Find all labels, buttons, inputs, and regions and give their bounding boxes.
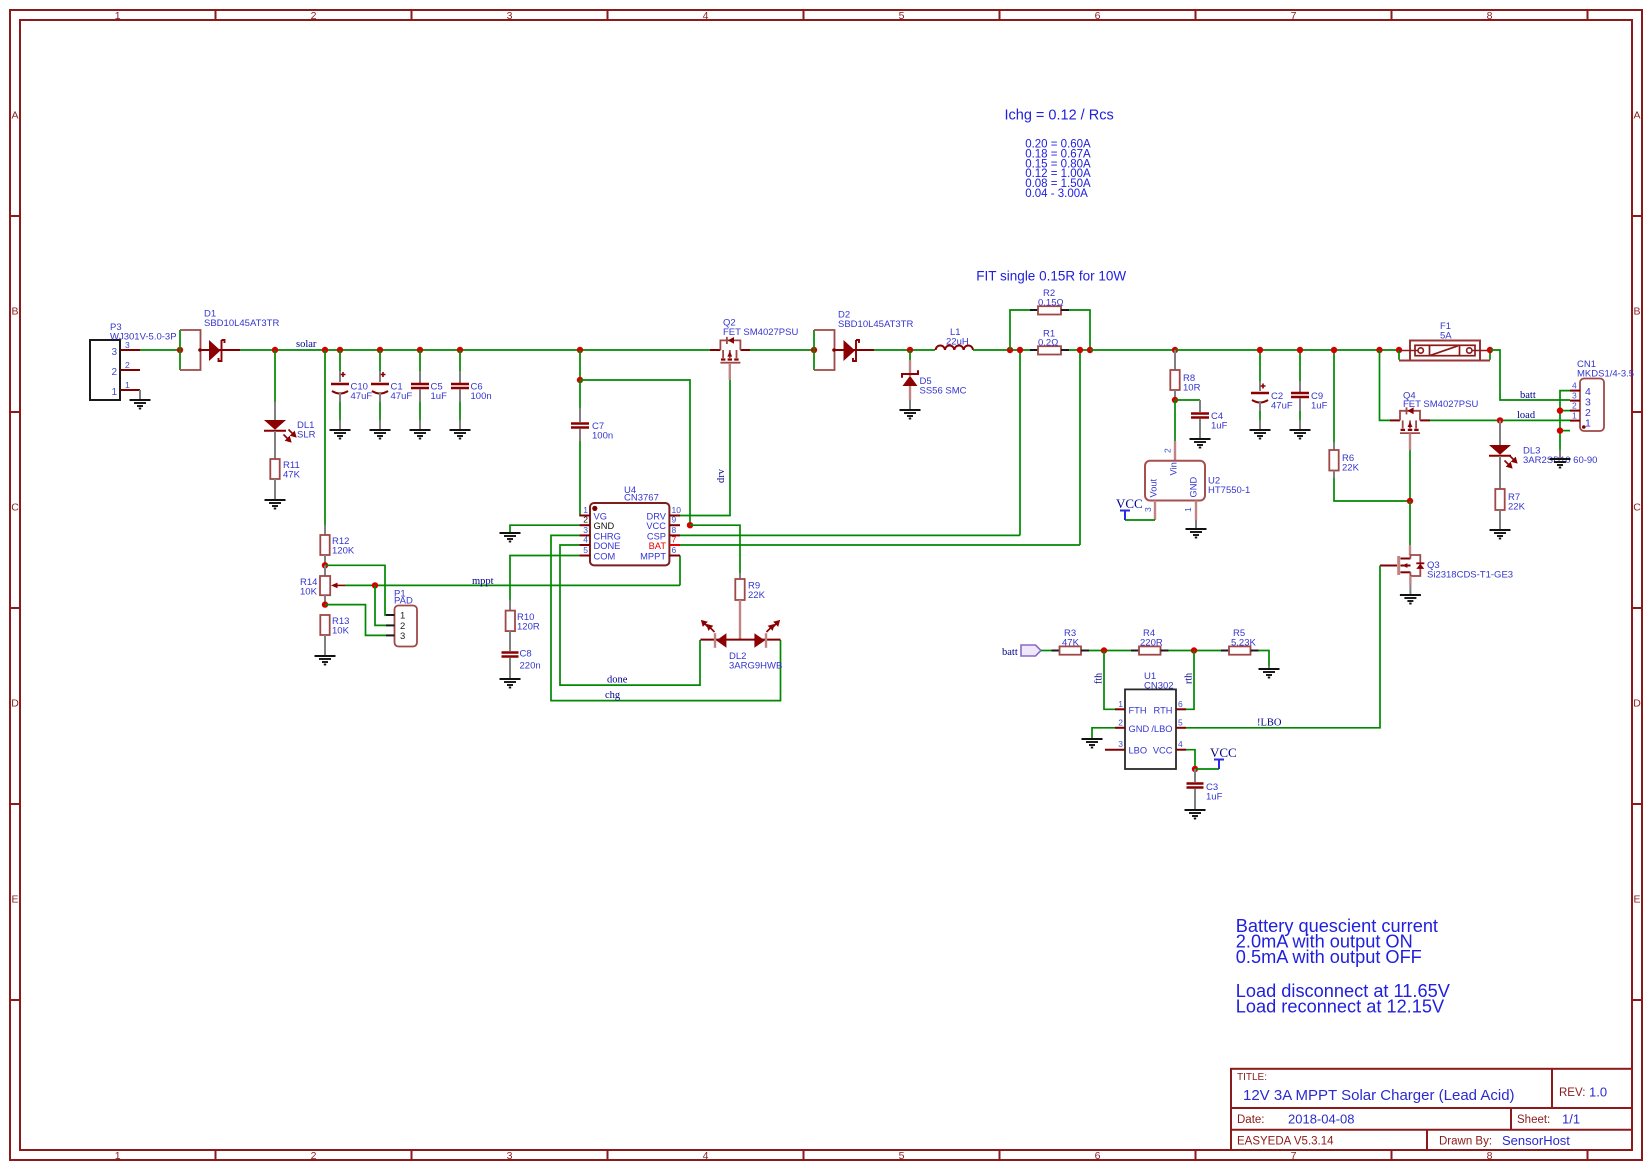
svg-text:load: load (1517, 410, 1536, 421)
wire COM to R10 (510, 556, 579, 611)
U1 pin 3 LBO (1105, 739, 1147, 756)
capacitor C4 1uF (1191, 400, 1228, 438)
svg-text:47K: 47K (1062, 638, 1080, 649)
junction solar DL1 (272, 347, 278, 353)
junction R6 (1331, 347, 1337, 353)
svg-text:1: 1 (115, 10, 121, 22)
svg-text:REV:: REV: (1559, 1087, 1585, 1099)
svg-text:TITLE:: TITLE: (1237, 1072, 1267, 1083)
ground C4 (1190, 439, 1211, 448)
junction VCC pin9 (687, 522, 693, 528)
svg-text:100n: 100n (471, 391, 492, 402)
svg-text:FET SM4027PSU: FET SM4027PSU (723, 327, 798, 338)
U4 pin 8 CSP (647, 525, 680, 542)
svg-text:4: 4 (1178, 739, 1183, 749)
wire R5 to ground (1259, 651, 1270, 669)
wire mppt to P1 pin2 (375, 585, 386, 625)
junction Q3 gate node (1407, 498, 1413, 504)
svg-text:4: 4 (583, 535, 588, 545)
svg-text:SS56 SMC: SS56 SMC (920, 386, 967, 397)
power flag VCC (U2) (1116, 496, 1143, 520)
wire Q4 source branch (1380, 350, 1391, 420)
svg-text:VCC: VCC (646, 521, 666, 531)
junction F1 left (1396, 347, 1402, 353)
svg-text:120R: 120R (517, 622, 540, 633)
svg-text:Vin: Vin (1169, 462, 1179, 475)
fuse F1 5A (1399, 321, 1490, 361)
svg-text:0.15Ω: 0.15Ω (1038, 298, 1064, 309)
svg-text:3: 3 (507, 10, 513, 22)
junction R12-R14 node (322, 562, 328, 568)
svg-text:RTH: RTH (1154, 705, 1173, 715)
svg-text:BAT: BAT (649, 541, 667, 551)
svg-text:C: C (1633, 502, 1641, 514)
svg-text:E: E (11, 894, 18, 906)
wire VCC net top (580, 380, 690, 525)
resistor R5 5.23K (1221, 628, 1259, 655)
svg-text:Sheet:: Sheet: (1517, 1114, 1550, 1126)
U1 pin 1 FTH (1115, 699, 1147, 716)
U4 pin 3 CHRG (579, 525, 620, 542)
svg-text:Vout: Vout (1149, 478, 1159, 497)
wire node to C4 (1175, 399, 1200, 401)
svg-text:2: 2 (1163, 448, 1173, 453)
svg-text:1: 1 (583, 505, 588, 515)
svg-text:Load reconnect at 12.15V: Load reconnect at 12.15V (1236, 997, 1445, 1017)
annotation battery current (1236, 916, 1451, 1017)
junction DL3 (1497, 417, 1503, 423)
svg-text:3: 3 (583, 525, 588, 535)
U1 pin 2 GND (1115, 717, 1149, 734)
svg-text:22K: 22K (1508, 502, 1526, 513)
potentiometer R14 10K (300, 565, 345, 597)
svg-text:220R: 220R (1140, 638, 1163, 649)
U2 pin 3 Vout wire to VCC flag (1125, 501, 1155, 521)
svg-text:MPPT: MPPT (640, 552, 666, 562)
wire DL1 branch (274, 350, 276, 420)
wire chg net (551, 535, 781, 700)
svg-text:VG: VG (594, 512, 607, 522)
wire R12 branch (324, 350, 326, 535)
svg-text:D: D (11, 698, 19, 710)
svg-text:E: E (1633, 894, 1640, 906)
wire drv net (680, 380, 730, 516)
junction D2 anode (811, 347, 817, 353)
junction BAT tap (1077, 347, 1083, 353)
resistor R1 0.2 ohm (1030, 329, 1090, 355)
wire load net (1430, 419, 1570, 421)
annotation Ichg table (1025, 139, 1091, 201)
svg-text:2: 2 (1118, 717, 1123, 727)
svg-text:0.2Ω: 0.2Ω (1038, 338, 1058, 349)
wire batt net to CN1 (1490, 350, 1570, 400)
svg-text:0.5mA with output OFF: 0.5mA with output OFF (1236, 947, 1422, 967)
wire R6 to gate node (1334, 478, 1410, 501)
svg-text:solar: solar (296, 339, 317, 350)
svg-text:Date:: Date: (1237, 1114, 1265, 1126)
svg-text:5: 5 (583, 545, 588, 555)
transistor Q2 FET SM4027PSU (710, 318, 798, 381)
ground C9 (1290, 430, 1311, 439)
svg-text:CSP: CSP (647, 531, 666, 541)
svg-text:3: 3 (1572, 391, 1577, 401)
junction C9 (1297, 347, 1303, 353)
svg-text:47K: 47K (283, 470, 301, 481)
wire CN1 pin4/pin2 to ground (1560, 391, 1570, 450)
wire node to P1 pin3 (325, 605, 386, 636)
svg-text:batt: batt (1002, 647, 1018, 658)
wire node to P1 pin1 (325, 565, 386, 615)
wire to ground CN1 (1559, 450, 1561, 458)
svg-text:6: 6 (672, 545, 677, 555)
svg-text:8: 8 (672, 525, 677, 535)
wire U4 GND pin2 (510, 525, 579, 532)
svg-text:GND: GND (594, 521, 615, 531)
svg-text:1: 1 (111, 387, 117, 398)
svg-text:6: 6 (1095, 1150, 1101, 1162)
resistor R7 22K (1495, 489, 1525, 513)
wire VCC to R9 (690, 525, 740, 573)
junction CSP tap (1017, 347, 1023, 353)
junction R14-R13 node (322, 601, 328, 607)
ground Q3 (1400, 595, 1421, 604)
svg-text:1uF: 1uF (431, 391, 448, 402)
wire R4 to R5 (1169, 650, 1222, 652)
wire CSP net (680, 350, 1020, 535)
ground U1 (1082, 739, 1103, 748)
CN1 pin 1 (1570, 411, 1591, 430)
svg-text:HT7550-1: HT7550-1 (1208, 485, 1250, 496)
wire R14 to R13 (324, 595, 326, 605)
U4 pin 7 BAT (649, 535, 680, 552)
svg-text:GND: GND (1189, 477, 1199, 498)
junction VCC-C7 (577, 377, 583, 383)
svg-text:8: 8 (1487, 10, 1493, 22)
svg-text:1.0: 1.0 (1589, 1085, 1607, 1100)
svg-text:CHRG: CHRG (594, 531, 621, 541)
svg-text:4: 4 (703, 10, 709, 22)
connector P3 WJ301V-5.0-3P (90, 322, 177, 400)
svg-text:5: 5 (899, 1150, 905, 1162)
LED DL2 3ARG9HWB (700, 621, 782, 672)
svg-text:1: 1 (115, 1150, 121, 1162)
junction solar C5 (417, 347, 423, 353)
wire main bus right (1175, 349, 1399, 351)
connector CN1 MKDS1/4-3.5 (1577, 359, 1634, 431)
junction solar C1 (377, 347, 383, 353)
wire DL3 to R7 (1499, 456, 1501, 489)
ground P3 (130, 400, 151, 409)
junction solar C6 (457, 347, 463, 353)
svg-text:120K: 120K (332, 546, 355, 557)
wire R11 to ground (274, 479, 276, 499)
junction D1 anode (177, 347, 183, 353)
wire solar net (240, 349, 710, 351)
svg-text:B: B (11, 306, 18, 318)
net flag batt (1002, 645, 1041, 658)
svg-text:SBD10L45AT3TR: SBD10L45AT3TR (838, 319, 913, 330)
ground C6 (450, 430, 471, 439)
resistor R11 47K (270, 459, 300, 481)
U4 pin 4 DONE (579, 535, 620, 552)
wire mppt net (345, 556, 680, 586)
svg-text:SLR: SLR (297, 430, 316, 441)
capacitor C8 220n (502, 649, 541, 679)
svg-text:1uF: 1uF (1311, 401, 1328, 412)
svg-text:drv: drv (716, 468, 727, 483)
svg-text:0.04 - 3.00A: 0.04 - 3.00A (1025, 188, 1088, 200)
junction R2 right (1087, 347, 1093, 353)
svg-text:100n: 100n (592, 431, 613, 442)
U4 pin 10 DRV (647, 505, 682, 522)
IC U2 HT7550-1 (1143, 448, 1250, 512)
svg-text:FIT single 0.15R for 10W: FIT single 0.15R for 10W (976, 268, 1126, 283)
svg-text:2: 2 (111, 367, 117, 378)
svg-text:Drawn By:: Drawn By: (1439, 1136, 1492, 1148)
svg-text:1: 1 (125, 380, 130, 390)
junction solar R12 (322, 347, 328, 353)
ground CN1 (1550, 459, 1571, 468)
svg-text:47uF: 47uF (1271, 401, 1293, 412)
ground C2 (1250, 430, 1271, 439)
wire DL1 to R11 (274, 431, 276, 459)
ground R7 (1490, 530, 1511, 539)
wire R13 to ground (324, 635, 326, 655)
junction solar C7 (577, 347, 583, 353)
svg-text:VCC: VCC (1210, 745, 1237, 760)
svg-text:1/1: 1/1 (1562, 1112, 1580, 1127)
svg-text:WJ301V-5.0-3P: WJ301V-5.0-3P (110, 332, 177, 343)
svg-text:DRV: DRV (647, 512, 667, 522)
svg-text:B: B (1633, 306, 1640, 318)
svg-text:2: 2 (125, 360, 130, 370)
svg-text:/LBO: /LBO (1151, 724, 1172, 734)
svg-text:7: 7 (1291, 10, 1297, 22)
U4 pin 1 VG (579, 505, 607, 522)
svg-text:GND: GND (1129, 724, 1150, 734)
junction F1 right (1487, 347, 1493, 353)
svg-text:47uF: 47uF (391, 391, 413, 402)
svg-text:A: A (11, 110, 18, 122)
junction C2 (1257, 347, 1263, 353)
capacitor C2 47uF (1251, 350, 1293, 429)
ground C10 (330, 430, 351, 439)
wire batt flag to R3 (1041, 650, 1052, 652)
svg-text:done: done (607, 675, 628, 686)
resistor R13 10K (320, 615, 349, 637)
svg-text:5: 5 (899, 10, 905, 22)
svg-text:3: 3 (1118, 739, 1123, 749)
wire BAT net (680, 350, 1080, 545)
U1 pin 4 VCC (1153, 739, 1186, 756)
svg-text:VCC: VCC (1116, 496, 1143, 511)
svg-text:1: 1 (1585, 418, 1591, 430)
wire node to U2 Vin (1174, 400, 1176, 460)
svg-text:C8: C8 (520, 649, 532, 660)
svg-text:5: 5 (1178, 717, 1183, 727)
svg-text:2: 2 (311, 10, 317, 22)
resistor R2 0.15 ohm (1010, 288, 1090, 350)
svg-text:2: 2 (311, 1150, 317, 1162)
capacitor C3 1uF (1187, 769, 1223, 809)
svg-text:!LBO: !LBO (1257, 718, 1282, 729)
resistor R10 120R (506, 611, 540, 633)
junction fth node (1101, 647, 1107, 653)
capacitor C10 47uF (331, 350, 372, 429)
inductor L1 22uH (936, 327, 973, 350)
IC U4 CN3767 (590, 485, 669, 565)
wire !LBO net (1186, 566, 1380, 728)
svg-text:LBO: LBO (1129, 746, 1148, 756)
transistor Q4 FET SM4027PSU (1390, 391, 1478, 502)
CN1 pin 4 (1570, 381, 1591, 399)
power flag VCC (U1) (1210, 745, 1237, 769)
svg-text:7: 7 (672, 535, 677, 545)
svg-text:FTH: FTH (1129, 705, 1147, 715)
junction CN1 stub (1557, 427, 1563, 433)
svg-text:3: 3 (125, 340, 130, 350)
U4 pin 5 COM (579, 545, 615, 562)
svg-text:9: 9 (672, 515, 677, 525)
ground U4 pin2 (500, 533, 521, 542)
ground R13 (315, 656, 336, 665)
connector P1 PAD (386, 589, 417, 647)
svg-text:8: 8 (1487, 1150, 1493, 1162)
resistor R8 10R (1170, 350, 1200, 398)
svg-text:3ARG9HWB: 3ARG9HWB (729, 661, 782, 672)
svg-text:rth: rth (1184, 673, 1195, 684)
svg-text:10: 10 (672, 505, 682, 515)
wire Q2 to D2 (750, 349, 814, 351)
title block (1231, 1069, 1632, 1150)
capacitor C7 100n (571, 380, 613, 516)
svg-text:1: 1 (400, 611, 405, 622)
U2 pin 1 GND wire (1195, 501, 1197, 529)
svg-text:12V 3A MPPT Solar Charger (Lea: 12V 3A MPPT Solar Charger (Lead Acid) (1243, 1087, 1515, 1104)
ground C5 (410, 430, 431, 439)
svg-text:D: D (1633, 698, 1641, 710)
LED DL3 3AR2SD10 60-90 (1489, 420, 1597, 467)
transistor Q3 Si2318CDS-T1-GE3 (1380, 555, 1513, 594)
wire node to Q3 drain (1409, 501, 1411, 555)
wire P3 pin1 to ground (139, 390, 141, 399)
junction mppt P1 pin2 (372, 582, 378, 588)
svg-text:22K: 22K (1342, 463, 1360, 474)
svg-text:7: 7 (1291, 1150, 1297, 1162)
ground D5 (900, 410, 921, 419)
capacitor C1 47uF (371, 350, 412, 429)
P3 pin 3 (111, 340, 140, 358)
svg-text:2018-04-08: 2018-04-08 (1288, 1112, 1355, 1127)
svg-text:220n: 220n (520, 661, 541, 672)
svg-text:3: 3 (1143, 507, 1153, 512)
svg-text:batt: batt (1520, 390, 1536, 401)
svg-text:FET SM4027PSU: FET SM4027PSU (1403, 399, 1478, 410)
svg-text:47uF: 47uF (351, 391, 373, 402)
CN1 pin 3 (1570, 391, 1591, 409)
svg-text:2: 2 (583, 515, 588, 525)
U1 pin 5 /LBO (1151, 717, 1186, 734)
ground U2 (1186, 529, 1207, 538)
P3 pin 2 (111, 360, 140, 378)
CN1 pin 2 (1570, 401, 1591, 420)
junction R8 (1172, 347, 1178, 353)
svg-text:6: 6 (1178, 699, 1183, 709)
wire R3 to R4 (1089, 650, 1131, 652)
svg-text:22uH: 22uH (946, 337, 969, 348)
svg-text:Si2318CDS-T1-GE3: Si2318CDS-T1-GE3 (1427, 570, 1513, 581)
svg-text:COM: COM (594, 552, 616, 562)
U4 pin 9 VCC (646, 515, 680, 532)
svg-text:fth: fth (1094, 673, 1105, 684)
capacitor C9 1uF (1291, 350, 1328, 429)
svg-text:CN3767: CN3767 (624, 493, 659, 504)
svg-text:chg: chg (605, 690, 621, 701)
diode D5 SS56 SMC (902, 350, 967, 409)
svg-text:4: 4 (703, 1150, 709, 1162)
svg-text:10K: 10K (300, 587, 318, 598)
wire R1 to R8 node (1090, 349, 1175, 351)
wire node to VCC flag (1195, 768, 1219, 770)
svg-text:A: A (1633, 110, 1640, 122)
resistor R9 22K (735, 573, 765, 640)
svg-text:5.23K: 5.23K (1231, 638, 1256, 649)
wire R12 to R14 (324, 555, 326, 565)
svg-text:6: 6 (1095, 10, 1101, 22)
svg-text:1: 1 (1572, 411, 1577, 421)
junction rth node (1191, 647, 1197, 653)
svg-text:1uF: 1uF (1206, 792, 1223, 803)
junction Q4 tap (1376, 347, 1382, 353)
wire fth net (1104, 651, 1115, 710)
svg-text:SBD10L45AT3TR: SBD10L45AT3TR (204, 318, 279, 329)
svg-text:VCC: VCC (1153, 746, 1173, 756)
P3 pin 1 (111, 380, 140, 398)
resistor R4 220R (1131, 628, 1169, 655)
resistor R3 47K (1052, 628, 1090, 655)
ground C1 (370, 430, 391, 439)
ground R5 (1259, 669, 1280, 678)
junction D5 node (907, 347, 913, 353)
wire U1 VCC to C3 (1186, 750, 1195, 769)
svg-text:3: 3 (111, 347, 117, 358)
svg-text:mppt: mppt (472, 576, 494, 587)
junction solar C10 (337, 347, 343, 353)
U4 pin 6 MPPT (640, 545, 680, 562)
wire L1 to R1 (973, 349, 1030, 351)
svg-text:DONE: DONE (594, 541, 621, 551)
wire R7 to ground (1499, 510, 1501, 529)
svg-text:3: 3 (400, 631, 405, 642)
capacitor C6 100n (451, 350, 492, 429)
wire P3 pin3 to D1 (140, 349, 180, 351)
junction R8-C4 node (1172, 397, 1178, 403)
ground C3 (1185, 810, 1206, 819)
svg-text:10K: 10K (332, 626, 350, 637)
ground C8 (500, 679, 521, 688)
svg-text:CN302: CN302 (1144, 681, 1174, 692)
svg-text:C: C (11, 502, 19, 514)
svg-text:4: 4 (1572, 381, 1577, 391)
LED DL1 SLR (264, 420, 316, 442)
junction CN1 pin2 (1557, 407, 1563, 413)
ground R11 (265, 500, 286, 509)
svg-text:EASYEDA V5.3.14: EASYEDA V5.3.14 (1237, 1136, 1334, 1148)
svg-text:1: 1 (1118, 699, 1123, 709)
U4 pin 2 GND (579, 515, 614, 532)
wire R10 to C8 (509, 631, 511, 651)
svg-text:SensorHost: SensorHost (1502, 1133, 1570, 1148)
